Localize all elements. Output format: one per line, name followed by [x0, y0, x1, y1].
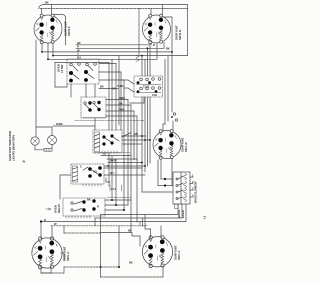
wire lamp bridge [35, 145, 44, 150]
wire dash strip y152 [100, 152, 130, 154]
wire TL bottom stub b [52, 43, 54, 56]
wire box A out right y63 [99, 63, 116, 65]
relay box D [93, 130, 122, 153]
svg-text:R-BK: R-BK [118, 84, 124, 88]
wire box D comb [96, 151, 117, 153]
wire block bottom verticals [101, 204, 178, 215]
wire box E out b [104, 174, 145, 176]
junction BL [40, 220, 42, 222]
wire MR top stub b [172, 121, 174, 131]
wire x158 stub [171, 159, 173, 186]
wire bus y62.5 [55, 62, 109, 64]
wire A-C link b [85, 84, 87, 97]
op switch TL [34, 14, 62, 44]
wire box C out y116 [106, 115, 137, 117]
arrow box F [46, 208, 51, 210]
junction bottom [118, 266, 120, 268]
wire box F comb [66, 216, 90, 218]
wire x95 vertical [94, 218, 96, 226]
wire box C out y99.5 [106, 99, 128, 101]
wire TR bottom stub c [156, 44, 158, 59]
svg-text:R: R [97, 205, 99, 209]
wire box F out a [105, 199, 131, 201]
wire x119 lower vertical [118, 226, 120, 267]
wire bus y47 [76, 44, 151, 46]
wire BR left stub [139, 236, 141, 246]
switch MR [153, 130, 181, 160]
wire x101 lower [100, 267, 102, 277]
wire lamp down [51, 145, 53, 149]
wire y166 [104, 165, 145, 167]
svg-text:BK-R: BK-R [110, 159, 116, 163]
wire mid verticals x121 [120, 72, 122, 130]
wire bus y53 [42, 51, 172, 53]
wire x134 vertical [133, 111, 135, 160]
wire x128 lower vertical [127, 133, 129, 205]
wire top bus L2 dashed [40, 8, 188, 10]
wire mid verticals x119 [118, 56, 120, 125]
wire box C out y111 [106, 110, 134, 112]
svg-text:BK: BK [45, 1, 49, 5]
wire x145 lower stub [145, 215, 151, 230]
wire TR bottom stub a [150, 44, 152, 45]
wire box E comb [83, 184, 101, 186]
svg-text:SW L.F.: SW L.F. [66, 251, 70, 261]
svg-text:BK: BK [128, 228, 132, 232]
junction y53-x172 [171, 51, 173, 53]
oven control box C [81, 97, 106, 118]
wire box A out right y80 [99, 79, 124, 81]
relay box E [71, 164, 104, 184]
wire mid verticals x112 [111, 59, 113, 198]
svg-text:W: W [23, 160, 26, 164]
wire x147 vertical [147, 48, 149, 166]
wire x52 upper [36, 126, 52, 128]
svg-text:BK: BK [166, 46, 170, 50]
svg-text:1: 1 [192, 174, 194, 178]
connector pins right [173, 113, 175, 115]
wire BL bottom b [50, 267, 52, 274]
svg-text:1 2 3: 1 2 3 [111, 187, 117, 191]
wire x142 vertical [141, 56, 143, 170]
svg-text:LIGHTS (MAIN TOP): LIGHTS (MAIN TOP) [12, 135, 16, 161]
wire x64 step [63, 226, 65, 233]
svg-text:SW L.F.: SW L.F. [177, 250, 181, 260]
wire mid verticals x116 [115, 64, 117, 206]
wire x131 vertical [130, 105, 132, 160]
wire box C out y105 [106, 104, 131, 106]
wire lamp right top [51, 127, 53, 136]
wire y162.5 [108, 162, 142, 164]
relay box F [54, 198, 106, 217]
junction x101 bottom [100, 266, 102, 268]
wire into block b [158, 185, 173, 187]
wire into block c [142, 191, 173, 193]
wire box A bottom left [55, 84, 67, 87]
merge arrows y88 [112, 88, 116, 90]
wire box D diag [122, 133, 131, 138]
junction bundle lower [141, 135, 143, 137]
wire y126 line [53, 125, 95, 127]
wire bottom bus y277 [101, 276, 164, 278]
wire y88.5 [99, 88, 118, 90]
lamp left [31, 137, 39, 145]
wire x101 vertical [100, 215, 102, 268]
svg-text:BAKE ELEMENT: BAKE ELEMENT [194, 181, 198, 203]
svg-text:L1: L1 [203, 215, 207, 219]
svg-text:T.O.D.: T.O.D. [143, 85, 150, 89]
svg-text:ELEM: ELEM [181, 210, 185, 218]
wire BL top stub a [40, 222, 42, 239]
svg-text:BK: BK [87, 198, 91, 202]
svg-text:OR: OR [134, 132, 138, 136]
wire bus y232.6 [64, 232, 101, 234]
wire right thick vertical x165 [164, 59, 166, 124]
svg-text:LT SW: LT SW [60, 64, 64, 73]
wire bus y225 dashed [51, 225, 147, 227]
switch BR [142, 236, 172, 268]
wire block bottom verticals b [95, 204, 182, 218]
bake element block [173, 172, 193, 204]
wire bus y59.5 [48, 58, 157, 60]
fuse block bottom [175, 204, 179, 208]
svg-text:CLK: CLK [152, 93, 157, 97]
lamp right [48, 136, 57, 145]
wire dashed y197.5 [107, 197, 131, 199]
wire MR top stub a [163, 124, 165, 131]
oven light switch box [57, 59, 100, 84]
wire box B left in b [124, 87, 128, 89]
wire x131 lower vertical [130, 160, 132, 233]
wire x142 lower [141, 170, 143, 192]
wire C-D link [94, 118, 96, 130]
wire TR stub b [162, 5, 164, 15]
svg-text:W: W [54, 222, 57, 226]
wire box B left in a [121, 79, 128, 81]
junction dots TL buses [41, 51, 43, 53]
connector labels [106, 178, 122, 191]
svg-text:SW R.R.: SW R.R. [178, 29, 182, 40]
wire x140 vertical [139, 222, 141, 225]
wire right vertical x168 [167, 56, 169, 121]
svg-text:R: R [77, 45, 79, 49]
svg-text:W-BK: W-BK [56, 122, 63, 126]
thermostat box B [128, 76, 163, 97]
wire box B bottom stub [130, 97, 144, 103]
svg-text:R: R [44, 218, 46, 222]
wire x137 lower vertical [136, 159, 138, 222]
wire bottom bus y267 dashed [64, 266, 119, 268]
junction bundle [141, 55, 143, 57]
wire x150 vertical [149, 45, 151, 163]
merge ticks [136, 55, 139, 62]
wire box A out right y72 [99, 71, 121, 73]
wire TL top-right corner [54, 15, 66, 45]
svg-text:RELAY: RELAY [57, 204, 61, 213]
svg-text:BU: BU [110, 171, 114, 175]
wire x158 vert [157, 160, 159, 186]
wire right vertical x172 [171, 52, 173, 112]
wire x152 stub [160, 160, 162, 180]
junction block [164, 178, 166, 180]
wire BL right step [61, 253, 64, 261]
svg-text:BK: BK [129, 261, 133, 265]
svg-text:BK: BK [100, 85, 104, 89]
wire dashes under box C [83, 117, 106, 119]
wire x128 right verticals a [127, 100, 129, 134]
wire top bus L1 [44, 4, 188, 6]
wire mid verticals x124 [123, 80, 125, 210]
wire bus y56 [53, 55, 188, 57]
svg-text:R-W: R-W [119, 107, 124, 111]
svg-text:BK: BK [77, 41, 81, 45]
wire box E out a [104, 167, 142, 169]
wire block bottom verticals c [42, 204, 186, 222]
svg-text:NO: NO [93, 170, 97, 174]
junction dots mid [111, 199, 113, 201]
wire mid verticals x109 [108, 63, 110, 187]
wire x139 drop [138, 9, 140, 56]
wire TL bottom stub a [41, 44, 43, 52]
wire A-C link c [94, 84, 96, 97]
wire BL top stub b [51, 226, 53, 239]
wire TL bottom stub c [47, 44, 49, 60]
wire y159 [107, 158, 137, 160]
wire box D out b [122, 139, 150, 141]
wire box D out c [122, 143, 142, 145]
svg-text:R-BK: R-BK [119, 96, 125, 100]
wire BL bottom a [41, 268, 51, 274]
svg-text:SW R.F.: SW R.F. [67, 26, 71, 36]
wire TL left vertical down to lamp [35, 40, 37, 137]
svg-text:SW L.R.: SW L.R. [184, 141, 188, 152]
switch BL [32, 237, 62, 269]
wire box D out a [122, 135, 146, 137]
junction y162 [141, 162, 143, 164]
wire A-C link a [70, 84, 72, 97]
wire box F out c [105, 209, 124, 211]
wire x137 vertical [136, 116, 138, 160]
wire bus y50 [76, 47, 164, 49]
switch TR [143, 14, 171, 44]
svg-text:R: R [153, 43, 155, 47]
wire bottom bus dashed [41, 267, 64, 273]
wire y155 [101, 155, 131, 157]
wire long dashed y120.5 [75, 120, 145, 122]
wire BR bottom [162, 266, 164, 277]
wire y232.6 right [101, 233, 140, 236]
wire BR top stub b [160, 226, 162, 238]
wire TR right corner [163, 17, 172, 52]
wire box F out b [105, 204, 128, 206]
wire TR bottom stub b [163, 43, 165, 49]
svg-text:BK: BK [119, 101, 123, 105]
wire into block a [161, 178, 173, 180]
svg-text:C: C [80, 165, 82, 169]
wire TR stub a [150, 9, 152, 15]
wire x145 vertical [144, 59, 146, 172]
wire BR top stub a [150, 229, 152, 238]
wire left col x55 [54, 63, 56, 88]
wire x142 lower stub [142, 218, 144, 226]
resistor lamp [44, 148, 52, 151]
wire right bus vertical [187, 5, 189, 56]
wire box E left stub [60, 175, 71, 199]
wire hook left [39, 5, 52, 15]
